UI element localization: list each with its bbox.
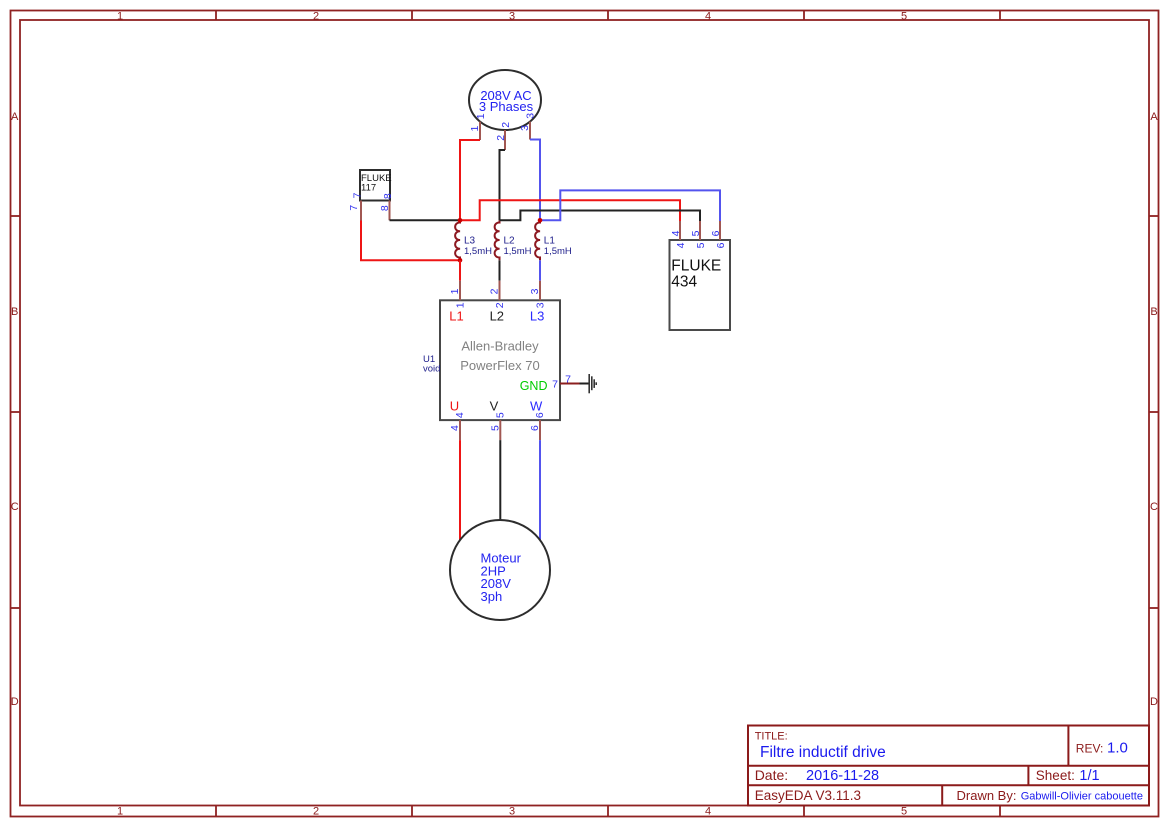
AC source pin 2	[495, 122, 512, 150]
svg-text:3: 3	[519, 125, 531, 131]
svg-text:2016-11-28: 2016-11-28	[806, 768, 879, 784]
svg-text:Gabwill-Olivier cabouette: Gabwill-Olivier cabouette	[1021, 791, 1143, 803]
svg-text:L2: L2	[490, 308, 504, 323]
svg-text:2: 2	[313, 11, 319, 23]
svg-text:4: 4	[705, 806, 711, 818]
svg-text:5: 5	[495, 412, 507, 418]
svg-text:1: 1	[475, 113, 487, 119]
svg-text:8: 8	[382, 193, 394, 199]
svg-text:2: 2	[500, 122, 512, 128]
svg-text:7: 7	[352, 192, 364, 198]
svg-text:D: D	[1150, 696, 1158, 708]
svg-text:4: 4	[670, 230, 682, 236]
svg-text:434: 434	[671, 274, 697, 291]
svg-text:PowerFlex 70: PowerFlex 70	[460, 358, 539, 373]
AC source pin 1	[469, 113, 487, 140]
svg-text:3: 3	[509, 11, 515, 23]
svg-text:Filtre inductif drive: Filtre inductif drive	[760, 744, 886, 761]
svg-text:3 Phases: 3 Phases	[479, 99, 534, 114]
VFD pin 4	[449, 412, 466, 440]
svg-text:117: 117	[361, 183, 376, 194]
svg-text:3: 3	[529, 288, 541, 294]
wire VFD W to motor (blue)	[539, 440, 541, 540]
svg-text:TITLE:: TITLE:	[755, 731, 788, 743]
svg-text:L3: L3	[530, 308, 544, 323]
svg-text:Drawn By:: Drawn By:	[957, 788, 1017, 803]
svg-text:6: 6	[715, 242, 727, 248]
svg-text:1.0: 1.0	[1107, 740, 1128, 757]
FLUKE 117 pin 8	[379, 193, 394, 220]
svg-text:7: 7	[565, 374, 571, 386]
svg-text:REV:: REV:	[1076, 742, 1104, 756]
svg-text:3: 3	[509, 806, 515, 818]
svg-text:5: 5	[901, 806, 907, 818]
svg-text:Date:: Date:	[755, 767, 788, 783]
wire L1 top to FLUKE434 pin 6 (blue)	[540, 190, 720, 221]
svg-text:6: 6	[529, 425, 541, 431]
wire FLUKE117 pin8 to L3 top (black)	[390, 219, 461, 221]
ground	[589, 374, 596, 393]
VFD pin 6	[529, 412, 546, 440]
AC source 208V 3 Phases	[469, 70, 541, 130]
AC source pin 3	[519, 113, 536, 140]
svg-text:Sheet:: Sheet:	[1036, 768, 1075, 783]
svg-text:C: C	[11, 501, 19, 513]
svg-text:1: 1	[449, 288, 461, 294]
svg-text:1/1: 1/1	[1079, 768, 1099, 784]
svg-text:B: B	[1150, 306, 1157, 318]
svg-text:4: 4	[705, 11, 711, 23]
wire source pin1 to L3 top (red)	[460, 140, 480, 220]
svg-text:V: V	[490, 399, 499, 414]
svg-text:3ph: 3ph	[481, 589, 503, 604]
inductor L3 1,5mH	[455, 220, 492, 260]
wire L3 top to FLUKE434 pin 4 (red)	[460, 200, 680, 221]
svg-text:6: 6	[710, 230, 722, 236]
svg-text:4: 4	[675, 242, 687, 248]
svg-text:1: 1	[117, 806, 123, 818]
inductor L1 1,5mH	[535, 220, 572, 260]
wire L3 bottom to drive pin1 (red)	[459, 260, 461, 280]
wire VFD U to motor (red)	[459, 440, 461, 540]
svg-text:5: 5	[901, 11, 907, 23]
wire GND pin to ground (black)	[580, 383, 589, 385]
svg-text:2: 2	[494, 302, 506, 308]
svg-text:2: 2	[313, 806, 319, 818]
svg-text:B: B	[11, 306, 18, 318]
wire FLUKE117 pin7 to L3 bottom (red)	[361, 221, 460, 261]
VFD pin 1	[449, 281, 466, 309]
FLUKE 117 pin 7	[348, 192, 364, 220]
svg-text:4: 4	[454, 412, 466, 418]
junction L3 bottom	[458, 258, 463, 263]
svg-text:L1: L1	[449, 308, 463, 323]
svg-text:EasyEDA V3.11.3: EasyEDA V3.11.3	[755, 788, 861, 803]
VFD pin 3	[529, 281, 546, 309]
svg-text:5: 5	[490, 425, 502, 431]
junction L3 top	[458, 218, 463, 223]
svg-text:Allen-Bradley: Allen-Bradley	[461, 339, 539, 354]
svg-text:3: 3	[534, 302, 546, 308]
svg-text:1: 1	[117, 11, 123, 23]
svg-text:void: void	[423, 364, 440, 375]
motor Moteur 2HP 208V 3ph	[450, 520, 550, 620]
svg-text:7: 7	[348, 205, 360, 211]
VFD U1 Allen-Bradley PowerFlex 70	[423, 300, 560, 420]
title block	[748, 726, 1149, 806]
svg-text:1: 1	[454, 302, 466, 308]
VFD pin 7 GND	[552, 374, 579, 391]
multimeter FLUKE 117	[360, 170, 392, 201]
wire L2 top to FLUKE434 pin 5 (black)	[500, 211, 701, 222]
FLUKE 434 pin 5	[690, 221, 707, 248]
svg-text:D: D	[11, 696, 19, 708]
svg-text:GND: GND	[520, 379, 548, 393]
FLUKE 434 pin 4	[670, 221, 687, 248]
svg-text:7: 7	[552, 379, 558, 391]
svg-text:W: W	[530, 399, 543, 414]
svg-text:A: A	[1150, 111, 1158, 123]
svg-text:1,5mH: 1,5mH	[544, 246, 572, 257]
wire source pin2 to L2 top (black)	[500, 150, 506, 220]
wire L2 bottom to drive pin2 (black)	[499, 260, 501, 280]
FLUKE 434 pin 6	[710, 221, 727, 248]
svg-text:3: 3	[524, 113, 536, 119]
svg-text:5: 5	[695, 242, 707, 248]
wire VFD V to motor (black)	[499, 440, 501, 520]
inductor L2 1,5mH	[495, 220, 532, 260]
power analyzer FLUKE 434	[670, 240, 731, 330]
wire source pin3 to L1 top (blue)	[530, 140, 540, 221]
svg-text:1,5mH: 1,5mH	[464, 246, 492, 257]
svg-text:FLUKE: FLUKE	[671, 258, 721, 275]
wire L1 bottom to drive pin3 (blue)	[539, 260, 541, 280]
svg-text:1,5mH: 1,5mH	[504, 246, 532, 257]
svg-text:4: 4	[449, 425, 461, 431]
junction L1 top	[538, 218, 543, 223]
VFD pin 2	[489, 281, 506, 309]
svg-text:C: C	[1150, 501, 1158, 513]
svg-text:8: 8	[379, 205, 391, 211]
VFD pin 5	[490, 412, 507, 440]
svg-text:5: 5	[690, 230, 702, 236]
svg-text:1: 1	[469, 126, 481, 132]
svg-text:2: 2	[495, 135, 507, 141]
svg-text:A: A	[11, 111, 19, 123]
svg-text:U: U	[450, 399, 459, 414]
svg-text:6: 6	[534, 412, 546, 418]
svg-text:2: 2	[489, 288, 501, 294]
